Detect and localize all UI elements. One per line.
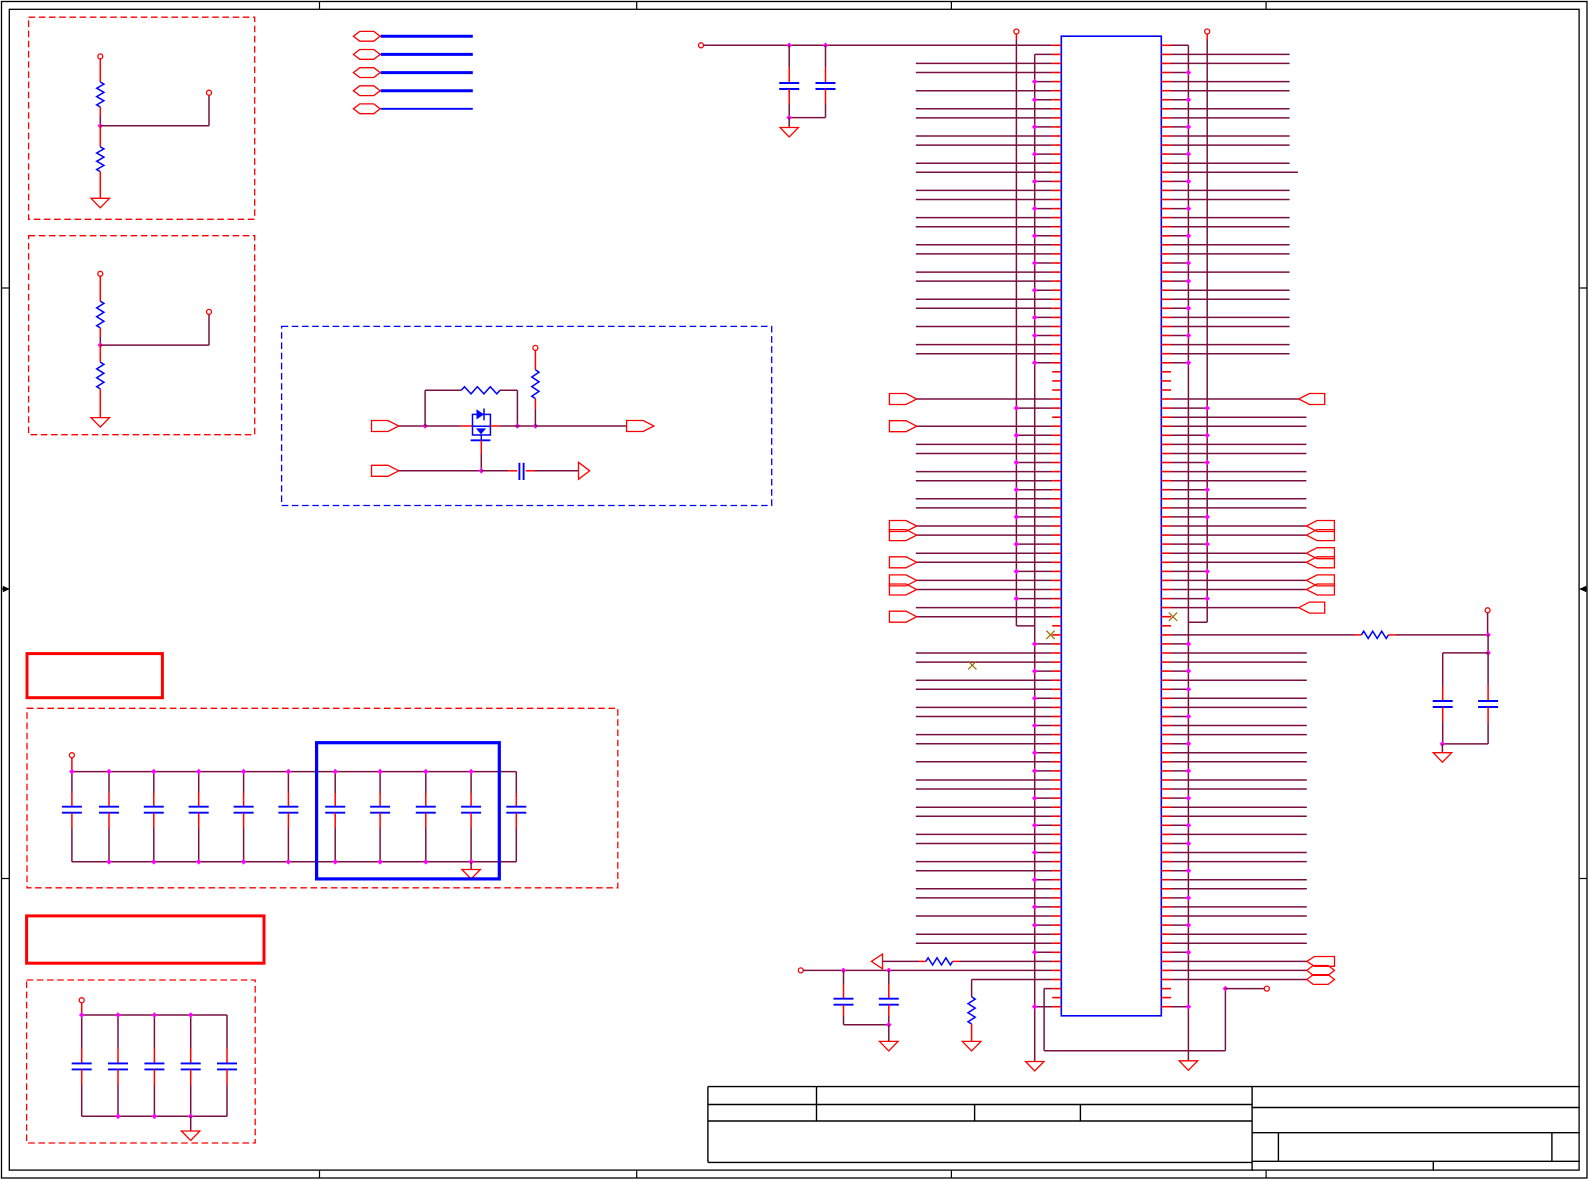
wire <box>1035 770 1053 772</box>
ground <box>780 128 799 138</box>
wire <box>1171 362 1188 364</box>
node junction <box>188 1012 194 1018</box>
wire <box>916 453 1052 455</box>
pin wire <box>534 399 536 409</box>
IC left pin 14 stub <box>1052 162 1061 164</box>
node junction <box>423 859 429 865</box>
wire <box>1016 570 1052 572</box>
IC left pin 53 stub <box>1052 516 1061 518</box>
wire <box>1171 788 1307 790</box>
wire <box>916 353 1052 355</box>
IC left pin 51 stub <box>1052 498 1061 500</box>
wire <box>916 90 1052 92</box>
ground <box>91 418 110 428</box>
port IN2 <box>372 465 399 476</box>
wire <box>1171 761 1307 763</box>
node junction <box>106 769 112 775</box>
wire <box>1171 770 1188 772</box>
wire <box>1171 108 1290 110</box>
IC right pin 12 stub <box>1161 144 1171 146</box>
wire <box>1171 117 1290 119</box>
port <box>1306 557 1334 568</box>
IC left pin 22 stub <box>1052 235 1061 237</box>
node junction <box>286 859 292 865</box>
wire <box>1171 162 1290 164</box>
wire <box>1171 942 1307 944</box>
border zone tick bottom <box>950 1171 952 1178</box>
wire <box>1171 752 1307 754</box>
port OUT1 <box>627 421 654 432</box>
title block cell divider <box>974 1105 976 1122</box>
wire <box>1171 171 1298 173</box>
bus wire 2 <box>381 53 473 56</box>
IC right pin 102 stub <box>1161 960 1171 962</box>
IC right pin 60 stub <box>1161 579 1171 581</box>
wire <box>1016 407 1052 409</box>
ground stem <box>888 1025 890 1042</box>
wire <box>916 888 1052 890</box>
wire <box>972 979 1053 981</box>
IC left pin 96 stub <box>1052 906 1061 908</box>
IC left pin 99 stub <box>1052 933 1061 935</box>
mosfet subcircuit dashed box <box>282 326 772 505</box>
wire <box>1171 797 1188 799</box>
wire <box>1171 716 1188 718</box>
capacitor Cb <box>888 970 890 984</box>
resistor R2 <box>97 147 104 172</box>
capacitor CB3 <box>153 1015 155 1048</box>
wire <box>1171 99 1188 101</box>
border zone tick top <box>636 2 638 10</box>
IC right pin 77 stub <box>1161 734 1171 736</box>
capacitor C7 <box>334 772 336 793</box>
IC left pin 104 stub <box>1052 979 1061 981</box>
IC right pin 25 stub <box>1161 262 1171 264</box>
node junction <box>1186 868 1192 874</box>
capacitor C3 <box>153 772 155 793</box>
IC left pin 35 stub <box>1052 353 1061 355</box>
IC left pin 98 stub <box>1052 924 1061 926</box>
IC left pin 63 stub <box>1052 607 1061 609</box>
IC left pin 11 stub <box>1052 135 1061 137</box>
IC U1 body <box>1061 36 1161 1016</box>
wire <box>1035 289 1053 291</box>
wire <box>916 62 1052 64</box>
IC right pin 87 stub <box>1161 824 1171 826</box>
IC right pin 42 stub <box>1161 416 1171 418</box>
wire <box>1035 697 1053 699</box>
wire <box>1035 180 1053 182</box>
wire <box>916 144 1052 146</box>
wire <box>1171 979 1307 981</box>
wire <box>99 337 101 345</box>
wire <box>1171 516 1207 518</box>
wire <box>1171 416 1306 418</box>
IC right pin 26 stub <box>1161 271 1171 273</box>
IC right pin 101 stub <box>1161 951 1171 953</box>
port <box>889 575 916 586</box>
pin wire <box>99 276 101 301</box>
IC right pin 91 stub <box>1161 861 1171 863</box>
ground <box>962 1041 981 1051</box>
small cap bank dashed box <box>27 980 256 1143</box>
wire <box>1035 1006 1053 1008</box>
node junction <box>1186 741 1192 747</box>
capacitor C11 <box>515 772 517 793</box>
wire <box>534 409 536 426</box>
wire <box>1171 607 1299 609</box>
pin wire <box>1206 34 1208 40</box>
wire <box>916 843 1052 845</box>
IC left pin 76 stub <box>1052 725 1061 727</box>
wire <box>916 815 1052 817</box>
IC left pin 75 stub <box>1052 716 1061 718</box>
output arrow <box>579 462 590 479</box>
wire <box>1035 235 1053 237</box>
wire <box>916 607 1052 609</box>
cap bank dashed box <box>27 708 618 888</box>
ground stem <box>470 862 472 870</box>
IC left pin 18 stub <box>1052 199 1061 201</box>
wire U loop <box>1043 989 1045 1051</box>
node junction <box>1186 278 1192 284</box>
IC left pin 42 stub <box>1052 416 1061 418</box>
node junction <box>1032 179 1038 185</box>
IC right pin 24 stub <box>1161 253 1171 255</box>
wire <box>1171 507 1306 509</box>
wire <box>1171 298 1290 300</box>
wire <box>916 688 1052 690</box>
IC right pin 22 stub <box>1161 235 1171 237</box>
resistor R1 <box>97 82 104 107</box>
wire <box>916 217 1052 219</box>
wire <box>971 980 973 997</box>
terminal T6 <box>69 753 74 758</box>
node junction <box>1485 632 1491 638</box>
wire <box>1171 843 1188 845</box>
left bus column 2 <box>1034 54 1036 1061</box>
IC right pin 4 stub <box>1161 72 1171 74</box>
node junction <box>1032 1004 1038 1010</box>
capacitor Ct <box>1487 653 1489 686</box>
wire <box>1171 217 1290 219</box>
wire <box>1443 652 1488 654</box>
pin wire <box>99 126 101 147</box>
IC right pin 107 stub <box>1161 1006 1171 1008</box>
node junction <box>1032 696 1038 702</box>
gate pin wire <box>480 440 482 453</box>
IC right pin 84 stub <box>1161 797 1171 799</box>
node junction <box>786 115 792 121</box>
node junction <box>152 1114 158 1120</box>
pin wire <box>508 470 517 472</box>
wire <box>1171 434 1207 436</box>
wire <box>1171 552 1306 554</box>
IC right pin 55 stub <box>1161 534 1171 536</box>
port <box>1306 530 1334 541</box>
node junction <box>1014 405 1020 411</box>
wire <box>916 443 1052 445</box>
wire <box>916 534 1052 536</box>
IC right pin 19 stub <box>1161 208 1171 210</box>
wire <box>1171 734 1307 736</box>
IC right pin 99 stub <box>1161 933 1171 935</box>
wire <box>1171 888 1307 890</box>
IC right pin 33 stub <box>1161 335 1171 337</box>
wire <box>1171 815 1307 817</box>
wire <box>916 861 1052 863</box>
wire <box>1044 988 1052 990</box>
port <box>889 584 916 595</box>
node junction <box>196 769 202 775</box>
node junction <box>1440 741 1446 747</box>
wire <box>916 189 1052 191</box>
right bus column B elbow <box>1188 621 1207 623</box>
wire <box>1035 53 1053 55</box>
IC left pin 25 stub <box>1052 262 1061 264</box>
node junction <box>1032 768 1038 774</box>
IC right pin 78 stub <box>1161 743 1171 745</box>
feedback wire <box>424 390 426 426</box>
port <box>889 530 916 541</box>
IC left pin 41 stub <box>1052 407 1061 409</box>
node junction <box>1223 986 1229 992</box>
pin wire <box>534 350 536 369</box>
node junction <box>1485 650 1491 656</box>
wire <box>1171 44 1188 46</box>
IC left pin 86 stub <box>1052 815 1061 817</box>
wire <box>1171 462 1207 464</box>
title block row line <box>708 1120 1252 1122</box>
capacitor C1 <box>71 772 73 793</box>
wire <box>916 652 1052 654</box>
IC right pin 8 stub <box>1161 108 1171 110</box>
wire <box>1171 72 1188 74</box>
node junction <box>1032 850 1038 856</box>
wire <box>788 104 790 118</box>
border mid arrow left <box>2 588 10 590</box>
wire <box>1171 208 1188 210</box>
connector <box>1307 975 1335 985</box>
divider block 1 dashed box <box>29 17 255 219</box>
terminal VTL <box>1014 29 1019 34</box>
IC right pin 5 stub <box>1161 81 1171 83</box>
wire <box>825 104 827 118</box>
IC left pin 60 stub <box>1052 579 1061 581</box>
port <box>1299 602 1325 613</box>
IC left pin 29 stub <box>1052 298 1061 300</box>
IC left pin 65 stub <box>1052 625 1061 627</box>
wire <box>916 199 1052 201</box>
IC left pin 17 stub <box>1052 189 1061 191</box>
pin wire <box>461 425 473 427</box>
IC right pin 38 stub <box>1161 380 1171 382</box>
IC left pin 59 stub <box>1052 570 1061 572</box>
IC left pin 1 stub <box>1052 44 1061 46</box>
node junction <box>1186 206 1192 212</box>
IC left pin 28 stub <box>1052 289 1061 291</box>
wire <box>1171 879 1307 881</box>
power bus wire <box>82 1014 227 1016</box>
node junction <box>1186 360 1192 366</box>
IC right pin 66 stub <box>1161 634 1171 636</box>
resistor Rpu <box>532 370 539 399</box>
pin wire <box>1389 634 1396 636</box>
bus wire 5 <box>381 108 473 110</box>
wire <box>916 761 1052 763</box>
label box <box>27 916 264 963</box>
IC left pin 84 stub <box>1052 797 1061 799</box>
wire <box>1035 906 1053 908</box>
wire <box>535 470 579 472</box>
wire <box>1171 271 1290 273</box>
port <box>1299 394 1325 405</box>
node junction <box>196 859 202 865</box>
node junction <box>1186 768 1192 774</box>
IC left pin 106 stub <box>1052 997 1061 999</box>
node junction <box>1186 922 1192 928</box>
node junction <box>1186 714 1192 720</box>
IC right pin 40 stub <box>1161 398 1171 400</box>
terminal T8 <box>798 968 803 973</box>
IC right pin 43 stub <box>1161 425 1171 427</box>
wire <box>1171 62 1290 64</box>
IC right pin 86 stub <box>1161 815 1171 817</box>
wire <box>1035 99 1053 101</box>
wire <box>1225 988 1264 990</box>
wire <box>1016 434 1052 436</box>
ground stem <box>1441 744 1443 753</box>
title block cell divider <box>1277 1133 1279 1162</box>
wire <box>1171 697 1307 699</box>
IC right pin 47 stub <box>1161 462 1171 464</box>
IC right pin 54 stub <box>1161 525 1171 527</box>
wire <box>1171 870 1188 872</box>
bus connector 2 <box>353 50 380 60</box>
wire <box>916 743 1052 745</box>
IC left pin 67 stub <box>1052 643 1061 645</box>
node junction <box>79 1012 85 1018</box>
resistor R3 <box>97 301 104 328</box>
wire <box>916 779 1052 781</box>
wire <box>1171 670 1188 672</box>
wire <box>1171 280 1188 282</box>
wire <box>1171 579 1306 581</box>
wire <box>1171 534 1306 536</box>
wire <box>425 425 461 427</box>
IC right pin 100 stub <box>1161 942 1171 944</box>
node junction <box>1204 487 1210 493</box>
no-connect <box>1169 613 1177 621</box>
IC right pin 95 stub <box>1161 897 1171 899</box>
bus wire 3 <box>381 71 473 74</box>
bus wire 4 <box>381 89 473 92</box>
IC left pin 10 stub <box>1052 126 1061 128</box>
IC right pin 63 stub <box>1161 607 1171 609</box>
wire <box>1171 471 1306 473</box>
node junction <box>1186 151 1192 157</box>
node junction <box>188 1114 194 1120</box>
wire <box>1035 725 1053 727</box>
ground <box>91 198 110 208</box>
wire <box>1171 589 1306 591</box>
IC left pin 66 stub <box>1052 634 1061 636</box>
IC right pin 35 stub <box>1161 353 1171 355</box>
IC right pin 80 stub <box>1161 761 1171 763</box>
node junction <box>423 769 429 775</box>
wire <box>916 171 1052 173</box>
IC left pin 57 stub <box>1052 552 1061 554</box>
IC right pin 68 stub <box>1161 652 1171 654</box>
IC left pin 31 stub <box>1052 316 1061 318</box>
wire <box>1171 525 1306 527</box>
node junction <box>151 769 157 775</box>
port IN1 <box>372 421 399 432</box>
wire <box>1171 53 1290 55</box>
IC right pin 96 stub <box>1161 906 1171 908</box>
wire <box>916 471 1052 473</box>
title block right row line <box>1252 1160 1580 1162</box>
title block cell divider <box>1432 1161 1434 1171</box>
capacitor Cd <box>788 45 790 67</box>
wire <box>916 788 1052 790</box>
wire <box>916 72 1052 74</box>
IC left pin 88 stub <box>1052 833 1061 835</box>
IC right pin 81 stub <box>1161 770 1171 772</box>
wire <box>916 942 1052 944</box>
IC right pin 41 stub <box>1161 407 1171 409</box>
input arrow <box>871 954 882 969</box>
wire <box>399 470 482 472</box>
wire <box>1171 135 1290 137</box>
wire <box>500 425 536 427</box>
IC right pin 82 stub <box>1161 779 1171 781</box>
wire <box>1035 924 1053 926</box>
terminal VTR <box>1205 29 1210 34</box>
IC right pin 9 stub <box>1161 117 1171 119</box>
wire <box>916 661 1052 663</box>
node junction <box>1032 750 1038 756</box>
wire <box>960 960 1053 962</box>
wire <box>916 579 1052 581</box>
IC left pin 78 stub <box>1052 743 1061 745</box>
wire <box>1171 244 1290 246</box>
wire <box>1171 688 1188 690</box>
wire <box>916 398 1052 400</box>
node junction <box>1032 723 1038 729</box>
title block outline <box>708 1086 1580 1088</box>
node junction <box>823 43 829 49</box>
IC right pin 105 stub <box>1161 988 1171 990</box>
node junction <box>332 769 338 775</box>
IC left pin 3 stub <box>1052 62 1061 64</box>
IC right pin 62 stub <box>1161 598 1171 600</box>
IC left pin 87 stub <box>1052 824 1061 826</box>
resistor Rt <box>1361 631 1388 638</box>
bus wire 1 <box>381 35 473 38</box>
ground stem <box>788 118 790 128</box>
IC left pin 107 stub <box>1052 1006 1061 1008</box>
IC left pin 90 stub <box>1052 852 1061 854</box>
wire <box>1171 335 1188 337</box>
wire <box>916 253 1052 255</box>
wire <box>1171 398 1299 400</box>
wire <box>1035 670 1053 672</box>
wire <box>1171 480 1306 482</box>
node junction <box>1186 97 1192 103</box>
wire <box>916 734 1052 736</box>
node junction <box>1186 687 1192 693</box>
